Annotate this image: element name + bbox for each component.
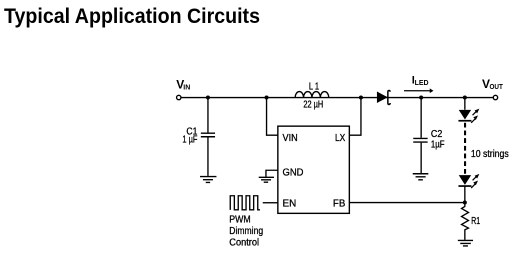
ground GND pin [259,177,274,182]
ground C1 [200,177,216,183]
wire LED1 top [464,98,466,110]
svg-text:EN: EN [283,198,297,210]
wire VIN pin [267,98,278,136]
svg-text:22 µH: 22 µH [303,99,323,110]
capacitor C1 [201,133,215,137]
svg-text:LX: LX [335,132,345,144]
resistor R1 [462,202,469,239]
svg-text:L 1: L 1 [309,81,320,92]
wire GND pin [266,170,278,177]
svg-text:GND: GND [283,166,304,178]
svg-text:PWM: PWM [229,215,250,226]
node VOUT label [482,77,504,91]
svg-text:FB: FB [333,198,345,210]
arrow ILED [404,88,433,93]
wire EN pin [263,202,278,204]
ground C2 [413,174,429,180]
junction C2 [419,96,423,100]
svg-text:LED: LED [415,80,429,87]
junction LX [359,96,363,100]
wire top rail [181,97,493,99]
label PWM Dimming Control [229,215,263,249]
terminal VIN [177,95,181,99]
svg-text:C2: C2 [431,129,443,140]
terminal VOUT [493,95,497,99]
node VIN label [176,77,190,91]
wire FB pin [350,202,465,204]
LED D2 [458,109,479,123]
junction VIN pin [265,96,269,100]
svg-text:Typical Application Circuits: Typical Application Circuits [4,5,260,28]
svg-text:Dimming: Dimming [229,226,263,237]
op IC U1 box [278,126,350,213]
wire dashed string [464,123,466,175]
label ILED [412,75,429,87]
svg-text:R1: R1 [471,216,480,227]
svg-text:10 strings: 10 strings [471,149,509,160]
wire C1 branch [207,98,209,176]
waveform PWM [230,196,260,210]
wire C2 branch [420,98,422,174]
svg-text:OUT: OUT [490,84,504,91]
ground R1 [458,240,473,246]
svg-text:Control: Control [229,237,259,248]
inductor L1 [295,92,329,98]
svg-text:VIN: VIN [283,132,298,144]
capacitor C2 [413,138,427,142]
diode D1 [377,90,390,104]
wire LX pin [350,98,361,136]
LED D3 [458,174,479,188]
svg-text:IN: IN [183,85,190,92]
svg-text:1µF: 1µF [431,139,445,150]
svg-text:1 µF: 1 µF [182,135,197,146]
junction VOUT [463,96,467,100]
junction FB [463,200,467,204]
junction C1 [206,96,210,100]
wire LED2 bottom [464,186,466,202]
